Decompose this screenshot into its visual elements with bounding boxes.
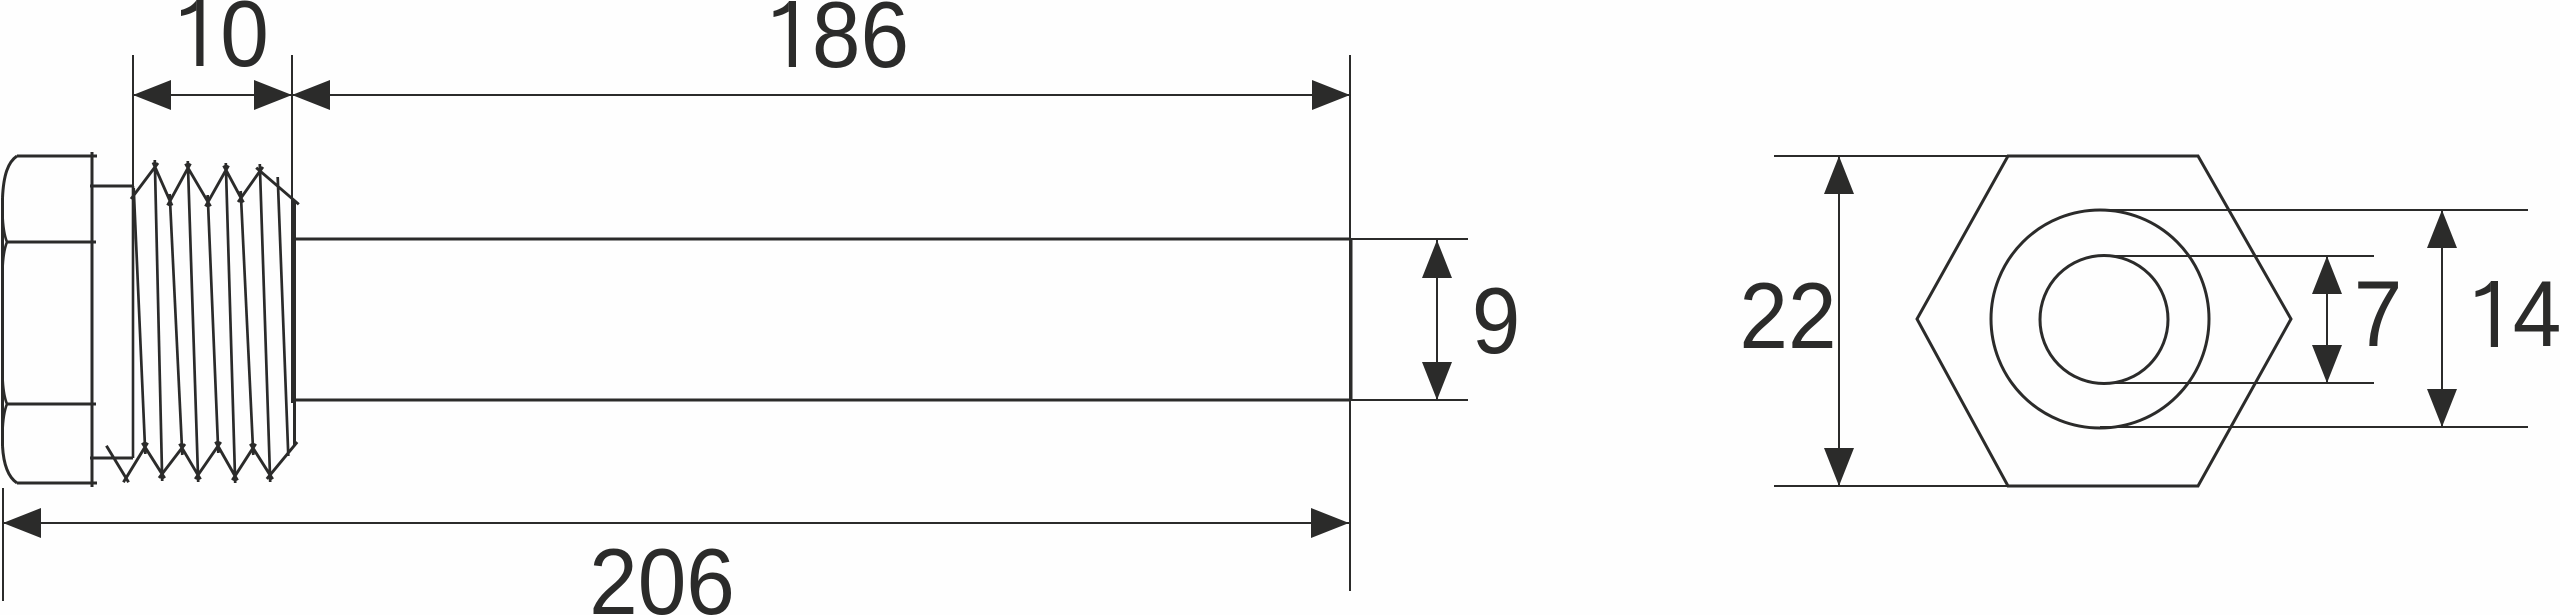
dimension line top y=95 bbox=[133, 94, 1350, 96]
arrow down of dim 7 bbox=[2312, 345, 2342, 383]
label 186 bbox=[789, 1, 796, 67]
rod right end edge bbox=[1350, 239, 1353, 400]
dimension line 14 bbox=[2441, 210, 2443, 427]
hex head facet line upper bbox=[7, 241, 96, 244]
extension line rod bottom y=400 bbox=[1350, 399, 1468, 401]
flange top edge bbox=[90, 185, 133, 188]
extension line x=3 bbox=[2, 488, 4, 601]
arrow left of dim 206 bbox=[3, 508, 41, 538]
arrow left of dim 186 bbox=[292, 80, 330, 110]
svg-text:206: 206 bbox=[589, 530, 735, 615]
dimension line 22 bbox=[1838, 156, 1840, 486]
hex head top-left chamfer arc bbox=[3, 156, 18, 198]
extension line x=1350 full height bbox=[1349, 55, 1351, 591]
thread end vertical bbox=[293, 201, 296, 446]
extension line x=292 bbox=[291, 55, 293, 403]
inner circle (7) bbox=[2040, 256, 2168, 384]
svg-text:4: 4 bbox=[2513, 262, 2560, 367]
dimension line 206 y=523 bbox=[3, 522, 1349, 524]
arrow up of dim 22 bbox=[1824, 156, 1854, 194]
label 10 bbox=[196, 0, 203, 66]
svg-text:7: 7 bbox=[2354, 262, 2403, 367]
arrow right of dim 186 bbox=[1312, 80, 1350, 110]
rod top edge bbox=[294, 238, 1350, 241]
thread flank lines bbox=[134, 160, 289, 483]
svg-text:86: 86 bbox=[812, 0, 909, 88]
hex head bottom edge bbox=[17, 482, 97, 485]
extension line hex top y=156 bbox=[1774, 155, 2008, 157]
arrow down of dim 22 bbox=[1824, 448, 1854, 486]
extension line circle bottom y=427 bbox=[2100, 426, 2528, 428]
extension line rod top y=239 bbox=[1350, 238, 1468, 240]
dimension line 9 bbox=[1436, 240, 1438, 400]
arrow left of dim 10 bbox=[133, 80, 171, 110]
hex head right edge bbox=[91, 152, 94, 487]
hex head bottom-left chamfer arc bbox=[3, 446, 18, 483]
flange right edge / extension line x=133 bbox=[132, 55, 134, 186]
arrow up of dim 7 bbox=[2312, 256, 2342, 294]
arrow down of dim 9 bbox=[1422, 362, 1452, 400]
hex head facet line lower bbox=[7, 403, 96, 406]
thread crest zigzag top bbox=[131, 162, 299, 206]
hex head lower facet junction arcs bbox=[3, 376, 8, 404]
extension line circle top y=210 bbox=[2100, 209, 2528, 211]
svg-text:0: 0 bbox=[220, 0, 269, 87]
rod bottom edge bbox=[294, 399, 1350, 402]
outer circle (14) bbox=[1991, 210, 2209, 428]
dimension line 7 bbox=[2326, 256, 2328, 383]
svg-text:9: 9 bbox=[1472, 269, 1521, 374]
arrow up of dim 14 bbox=[2427, 210, 2457, 248]
extension line inner circle top y=256 bbox=[2104, 255, 2374, 257]
label 14 bbox=[2491, 281, 2498, 347]
extension line hex bottom y=486 bbox=[1774, 485, 2008, 487]
hexagon end view bbox=[1917, 156, 2291, 486]
arrow right of dim 10 bbox=[254, 80, 292, 110]
arrow up of dim 9 bbox=[1422, 240, 1452, 278]
hex head upper facet junction arcs bbox=[3, 214, 8, 242]
arrow down of dim 14 bbox=[2427, 389, 2457, 427]
extension line inner circle bottom y=383 bbox=[2104, 382, 2374, 384]
flange bottom edge bbox=[90, 457, 133, 460]
svg-text:22: 22 bbox=[1739, 264, 1836, 369]
arrow right of dim 206 bbox=[1311, 508, 1349, 538]
thread crest zigzag bottom bbox=[106, 442, 297, 483]
hex head top edge bbox=[17, 155, 97, 158]
hex head left silhouette edge bbox=[1, 198, 4, 446]
